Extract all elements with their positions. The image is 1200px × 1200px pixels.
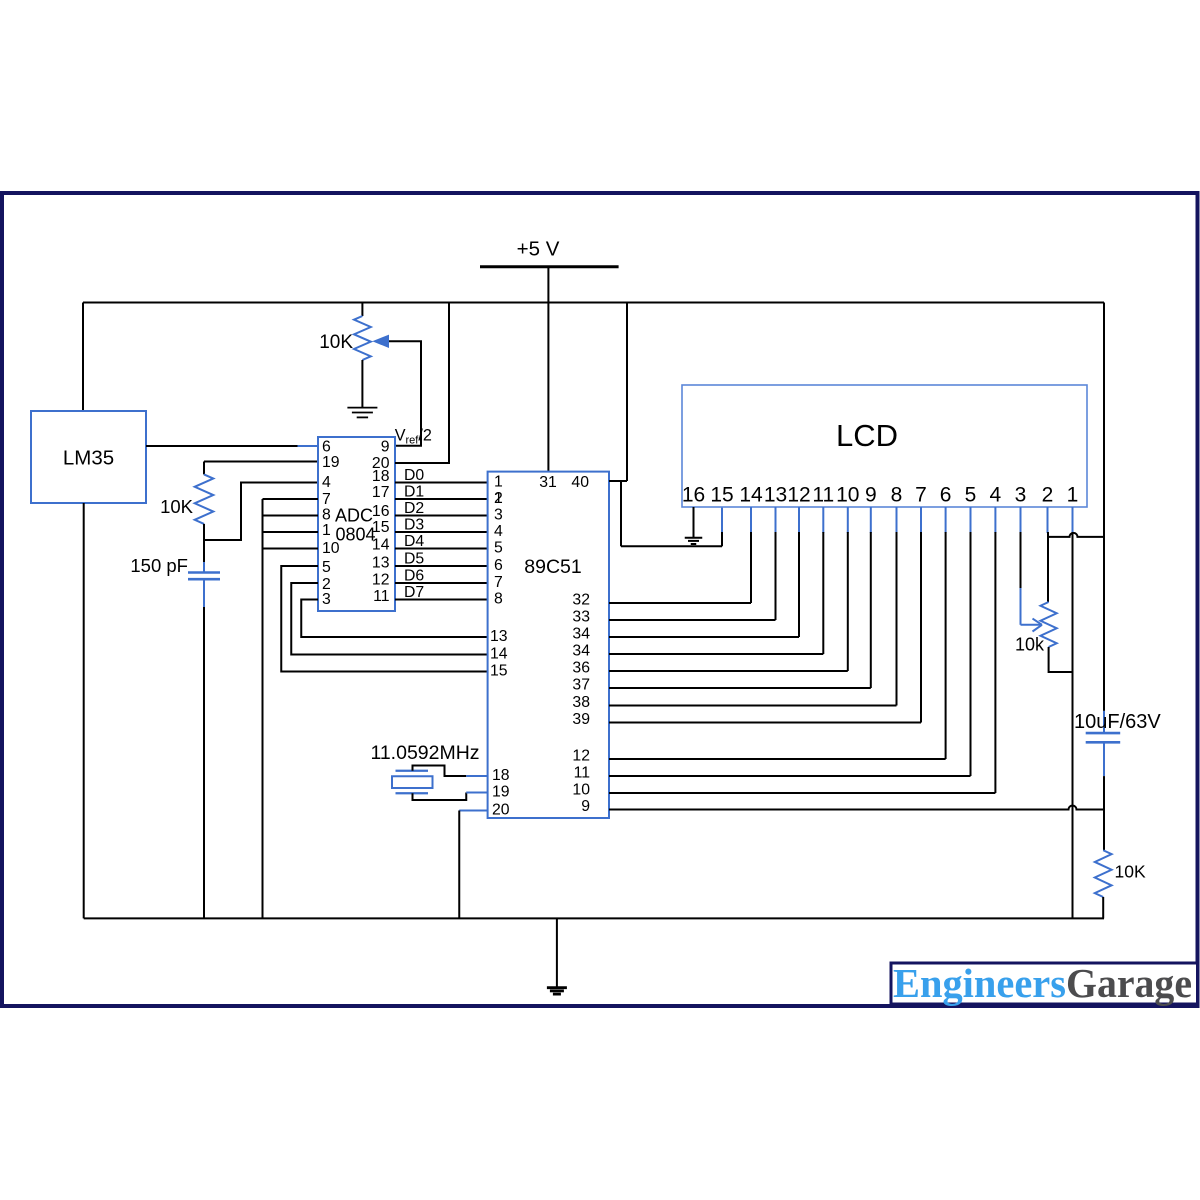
svg-text:14: 14 bbox=[372, 536, 390, 553]
svg-text:1: 1 bbox=[494, 474, 503, 491]
ADC right pin numbers 9 20 18 17 16 15 14 13 12 11 bbox=[372, 438, 390, 605]
wire data D3 ADC to 89C51 bbox=[395, 517, 488, 534]
svg-text:40: 40 bbox=[571, 474, 589, 491]
wire +5V stem to 89C51 pin 31 bbox=[547, 267, 549, 472]
resistor R2 10K (reset) bbox=[1095, 850, 1146, 897]
svg-text:16: 16 bbox=[372, 503, 390, 520]
svg-text:10uF/63V: 10uF/63V bbox=[1074, 711, 1161, 733]
wire ground stem bbox=[556, 918, 558, 987]
89C51 left pin numbers 13 14 15 bbox=[490, 628, 508, 680]
svg-text:17: 17 bbox=[372, 484, 390, 501]
wire 89C51 to LCD pin 14 bbox=[609, 507, 751, 603]
svg-text:9: 9 bbox=[381, 438, 390, 455]
svg-text:7: 7 bbox=[494, 574, 503, 591]
svg-text:150 pF: 150 pF bbox=[130, 555, 188, 576]
svg-text:D6: D6 bbox=[404, 568, 424, 585]
svg-text:8: 8 bbox=[494, 591, 503, 608]
svg-text:10: 10 bbox=[322, 540, 340, 557]
svg-text:14: 14 bbox=[739, 484, 763, 507]
wire ADC pin 2 to 89C51 pin 14 bbox=[291, 583, 487, 655]
svg-text:4: 4 bbox=[990, 484, 1002, 507]
potentiometer RV2 10k (contrast) bbox=[1041, 602, 1057, 647]
wire 89C51 to LCD pin 7 bbox=[609, 507, 921, 723]
svg-text:31: 31 bbox=[539, 474, 557, 491]
svg-text:10: 10 bbox=[836, 484, 859, 507]
wire 89C51 to LCD pin 9 bbox=[609, 507, 871, 688]
svg-text:8: 8 bbox=[891, 484, 903, 507]
wire LM35 top to +5V rail bbox=[82, 303, 84, 412]
wire 89C51 to LCD pin 13 bbox=[609, 507, 776, 620]
wire crystal to 89C51 pin 18 bbox=[413, 766, 488, 777]
wire resistor to ground rail bbox=[1102, 897, 1104, 918]
svg-text:32: 32 bbox=[572, 592, 590, 609]
wire ground bottom rail bbox=[84, 917, 1104, 919]
svg-text:7: 7 bbox=[915, 484, 927, 507]
svg-text:11: 11 bbox=[574, 765, 591, 782]
svg-text:15: 15 bbox=[372, 519, 390, 536]
wire 89C51 to LCD pin 6 bbox=[609, 507, 946, 759]
svg-text:11: 11 bbox=[373, 588, 390, 605]
svg-text:10K: 10K bbox=[319, 332, 353, 353]
svg-text:89C51: 89C51 bbox=[524, 556, 581, 578]
wire LM35 output to ADC pin 6 bbox=[146, 445, 298, 447]
wire 89C51 to LCD pin 5 bbox=[609, 507, 971, 776]
svg-text:LM35: LM35 bbox=[63, 447, 114, 470]
svg-text:+5 V: +5 V bbox=[517, 238, 560, 261]
svg-text:19: 19 bbox=[492, 784, 510, 801]
wire pot bottom to LCD pin 1 net bbox=[1049, 647, 1073, 672]
wire ADC pin 20 to +5V rail bbox=[395, 303, 449, 464]
89C51 right pin numbers 32-39 bbox=[572, 592, 590, 729]
svg-text:10K: 10K bbox=[160, 496, 194, 517]
wire data D4 ADC to 89C51 bbox=[395, 533, 488, 550]
wire pot wiper to ADC pin 9 (Vref/2) bbox=[389, 341, 421, 445]
svg-text:LCD: LCD bbox=[836, 418, 898, 453]
svg-text:13: 13 bbox=[490, 628, 508, 645]
svg-text:34: 34 bbox=[572, 643, 590, 660]
svg-text:1: 1 bbox=[494, 490, 503, 507]
svg-text:36: 36 bbox=[572, 660, 590, 677]
wire cap to reset node bbox=[1103, 776, 1105, 850]
wire data D2 ADC to 89C51 bbox=[395, 500, 488, 517]
wire 89C51 to LCD pin 12 bbox=[609, 507, 799, 637]
+5V supply bar bbox=[480, 265, 619, 268]
wire 89C51 to LCD pin 8 bbox=[609, 507, 897, 706]
svg-text:13: 13 bbox=[764, 484, 787, 507]
89C51 right pin numbers 12 11 10 9 bbox=[572, 748, 590, 816]
svg-text:3: 3 bbox=[1015, 484, 1027, 507]
svg-text:4: 4 bbox=[322, 474, 331, 491]
svg-text:D1: D1 bbox=[404, 484, 424, 501]
svg-text:4: 4 bbox=[494, 523, 503, 540]
sensor LM35 bbox=[31, 411, 146, 503]
svg-text:11.0592MHz: 11.0592MHz bbox=[370, 742, 479, 764]
svg-text:39: 39 bbox=[572, 711, 590, 728]
ground below pot bbox=[347, 407, 377, 409]
wire LCD pin 15 stub bbox=[721, 507, 723, 546]
svg-text:14: 14 bbox=[490, 646, 508, 663]
89C51 left pin numbers 18 19 20 bbox=[492, 767, 510, 819]
svg-text:20: 20 bbox=[492, 802, 510, 819]
svg-text:Engineers: Engineers bbox=[893, 960, 1066, 1006]
wire 89C51 pin 9 RST to reset node (with hop) bbox=[609, 806, 1104, 810]
wire 89C51 to LCD pin 4 bbox=[609, 507, 995, 793]
svg-text:6: 6 bbox=[940, 484, 952, 507]
EngineersGarage logo bbox=[891, 960, 1198, 1006]
svg-text:12: 12 bbox=[372, 572, 390, 589]
svg-text:10K: 10K bbox=[1115, 862, 1146, 882]
89C51 left pin numbers 1-8 bbox=[494, 474, 503, 608]
resistor R1 10K bbox=[203, 462, 205, 475]
svg-text:10: 10 bbox=[572, 782, 590, 799]
svg-text:12: 12 bbox=[787, 484, 810, 507]
svg-text:0804: 0804 bbox=[335, 525, 375, 545]
svg-text:1: 1 bbox=[1067, 484, 1079, 507]
wire ADC pin 4 loop bbox=[204, 483, 318, 541]
svg-text:D2: D2 bbox=[404, 500, 424, 517]
wire data D5 ADC to 89C51 bbox=[395, 551, 488, 568]
svg-text:5: 5 bbox=[494, 540, 503, 557]
svg-text:10k: 10k bbox=[1015, 635, 1045, 655]
wire ADC ground bus pins 7 8 1 10 bbox=[263, 499, 319, 918]
wire +5V top rail bbox=[83, 302, 1104, 304]
svg-text:7: 7 bbox=[322, 491, 331, 508]
wire data D1 ADC to 89C51 bbox=[395, 484, 488, 501]
IC U2 89C51 bbox=[488, 472, 609, 818]
wire LCD pin 2 to +5V right rail (with hop) bbox=[1048, 533, 1104, 537]
svg-text:5: 5 bbox=[965, 484, 977, 507]
svg-text:9: 9 bbox=[865, 484, 877, 507]
svg-text:13: 13 bbox=[372, 555, 390, 572]
svg-text:15: 15 bbox=[490, 663, 508, 680]
wire LCD pin 2 to pot top bbox=[1047, 507, 1050, 602]
svg-text:37: 37 bbox=[572, 677, 590, 694]
potentiometer RV1 10K (Vref/2) bbox=[354, 316, 371, 360]
wire data D7 ADC to 89C51 bbox=[395, 584, 488, 601]
svg-text:D7: D7 bbox=[404, 584, 424, 601]
svg-text:18: 18 bbox=[492, 767, 510, 784]
svg-text:2: 2 bbox=[1042, 484, 1054, 507]
wire pot top to +5V rail bbox=[361, 303, 363, 317]
ground at LCD pin 16 bbox=[685, 537, 703, 539]
crystal X1 11.0592MHz bbox=[370, 742, 479, 793]
wire LCD pin 1 to ground rail bbox=[1072, 507, 1074, 918]
wire data D6 ADC to 89C51 bbox=[395, 568, 488, 585]
svg-text:5: 5 bbox=[322, 559, 331, 576]
wire 89C51 pin 40 to +5V rail bbox=[609, 303, 722, 547]
svg-text:6: 6 bbox=[322, 438, 331, 455]
wire crystal to 89C51 pin 19 bbox=[413, 793, 488, 801]
svg-text:1: 1 bbox=[322, 522, 331, 539]
svg-text:D5: D5 bbox=[404, 551, 424, 568]
svg-text:3: 3 bbox=[494, 507, 503, 524]
89C51 pin 31 and 40 labels bbox=[539, 474, 589, 491]
wire data D0 ADC to 89C51 bbox=[395, 467, 488, 484]
LCD module bbox=[682, 385, 1087, 507]
wire +5V right rail bbox=[1103, 303, 1105, 711]
wire 89C51 to LCD pin 10 bbox=[609, 507, 848, 671]
svg-text:33: 33 bbox=[572, 609, 590, 626]
wire ADC pin 5 to 89C51 pin 15 bbox=[281, 566, 487, 672]
svg-text:ADC: ADC bbox=[335, 506, 373, 526]
svg-text:18: 18 bbox=[372, 468, 390, 485]
wire LCD pin 16 to ground bbox=[693, 507, 695, 537]
svg-text:D0: D0 bbox=[404, 467, 424, 484]
svg-text:19: 19 bbox=[322, 454, 340, 471]
wire ADC pin 3 to 89C51 pin 13 bbox=[301, 600, 487, 638]
svg-text:3: 3 bbox=[322, 591, 331, 608]
svg-text:D4: D4 bbox=[404, 533, 424, 550]
wire 89C51 to LCD pin 11 bbox=[609, 507, 823, 654]
svg-text:6: 6 bbox=[494, 557, 503, 574]
wire pot ground stem bbox=[361, 360, 363, 408]
svg-text:38: 38 bbox=[572, 694, 590, 711]
svg-text:12: 12 bbox=[572, 748, 590, 765]
wire LCD pin 3 to pot wiper bbox=[1021, 507, 1043, 632]
svg-text:11: 11 bbox=[812, 484, 834, 507]
wire ADC pin 19 to resistor top bbox=[204, 461, 318, 463]
capacitor C1 150 pF bbox=[203, 562, 205, 573]
LCD pin numbers 16..1 bbox=[682, 484, 1079, 507]
wire 89C51 pin 20 to ground rail bbox=[459, 811, 487, 919]
ground main bbox=[547, 986, 567, 989]
svg-text:15: 15 bbox=[710, 484, 733, 507]
wire capacitor to ground rail bbox=[203, 607, 205, 918]
svg-text:Garage: Garage bbox=[1066, 960, 1192, 1006]
capacitor C3 10uF/63V bbox=[1074, 711, 1161, 776]
svg-text:D3: D3 bbox=[404, 517, 424, 534]
svg-text:34: 34 bbox=[572, 626, 590, 643]
svg-text:9: 9 bbox=[581, 798, 590, 815]
ADC left pin numbers 6 19 4 7 8 1 10 5 2 3 bbox=[322, 438, 340, 608]
svg-text:16: 16 bbox=[682, 484, 705, 507]
wire LM35 ground (left vertical) bbox=[83, 503, 85, 918]
IC U1 ADC0804 bbox=[318, 437, 395, 611]
